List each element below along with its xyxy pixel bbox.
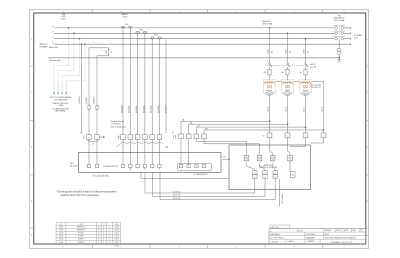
svg-text:(4)B1: (4)B1 [303,49,305,53]
relay box internal wires [247,164,255,171]
customer tap cables with arrows [68,27,70,29]
meter current input terminals [87,164,90,167]
wire output 2 [153,172,266,196]
wire 208Y/120 output [278,179,280,207]
node on grounding bar [338,57,340,59]
feeder taps to control transformers [269,27,271,29]
svg-text:Shipped Shorted: Shipped Shorted [111,120,124,123]
svg-text:1N5: 1N5 [205,128,208,130]
relay box input fuses [244,155,249,160]
svg-text:VOLTAGE INPUTS: VOLTAGE INPUTS [193,173,208,176]
svg-text:NO DIM: NO DIM [298,230,304,232]
svg-text:(1) 1A1 A+: (1) 1A1 A+ [120,105,123,113]
disconnect switches with linkage [269,63,271,65]
bus L1 (phase A) [55,27,335,29]
drawing inner border [34,13,366,244]
svg-text:CHKD BY: CHKD BY [336,230,342,232]
terminal strip TB3 (voltage) [173,135,175,139]
svg-text:10: 10 [274,173,276,175]
svg-text:PT Vn 208 (1,5): PT Vn 208 (1,5) [310,87,322,89]
svg-text:2.28.44: 2.28.44 [59,239,64,241]
svg-text:1.4: 1.4 [109,236,111,238]
svg-text:(1) 1A1 A+: (1) 1A1 A+ [128,105,131,113]
svg-text:1.28.44: 1.28.44 [115,233,120,235]
wire donut to ground bus [338,55,340,60]
svg-text:B+: B+ [262,136,264,138]
svg-text:Grounding Bar: Grounding Bar [49,60,61,62]
svg-text:4/B 3P 400A: 4/B 3P 400A [334,19,345,22]
svg-text:M: M [98,227,99,229]
neutral bar [55,43,351,45]
wire meter aux [141,172,229,178]
svg-text:(2) NN N+: (2) NN N+ [79,96,81,104]
TB1 jumper bracket [87,140,98,142]
wires TB4 to relay box [270,138,273,156]
CT secondary wires [122,28,124,135]
svg-text:2.28.44: 2.28.44 [59,230,64,232]
svg-text:/2-W: /2-W [354,38,358,40]
svg-text:(1) 1N1 N+: (1) 1N1 N+ [166,105,168,113]
svg-text:IB: IB [144,169,145,171]
svg-text:M: M [98,236,99,238]
svg-text:400/5: 400/5 [123,16,128,18]
svg-text:1.28.44+: 1.28.44+ [114,245,119,247]
power meter M1 outline [79,153,222,173]
wire sense B [89,48,109,135]
svg-text:(X) (X) (X)+: (X) (X) (X)+ [173,191,181,193]
svg-text:(2) NB B+: (2) NB B+ [94,96,96,103]
breaker linkage [338,26,340,41]
svg-text:CLASS: CLASS [58,104,65,107]
svg-text:m: m [196,169,197,171]
svg-text:AC-(700): AC-(700) [70,165,78,168]
svg-text:400/5: 400/5 [139,29,143,31]
svg-text:COUNT: COUNT [360,231,364,233]
svg-text:(1) 1A1 A+: (1) 1A1 A+ [142,105,145,113]
svg-text:(2) NA A+: (2) NA A+ [85,97,88,104]
svg-text:M: M [98,233,99,235]
neutral CT donut [337,48,341,52]
svg-text:REF: REF [115,224,118,226]
svg-text:M: M [98,230,99,232]
transformer primary windings T1 T2 T3 [265,82,275,83]
terminal blocks TB4 [267,133,272,138]
svg-text:(1) 1A1 A+: (1) 1A1 A+ [135,105,138,113]
wire PSU2 output [287,95,289,133]
wire PSU1 output [269,95,271,133]
svg-text:1.4: 1.4 [109,239,111,241]
svg-text:CT T(Notes): CT T(Notes) [111,123,121,126]
PT interconnect wire [276,80,281,82]
svg-text:(X) (X) (X)+: (X) (X) (X)+ [173,195,181,197]
drawing outer border [30,10,369,249]
svg-text:* Shorting links should be ke: * Shorting links should be kept in a dis… [56,191,117,194]
svg-text:208Y/120, 3-W: 208Y/120, 3-W [281,194,283,205]
wires TB1 to meter [88,139,90,164]
CT spare wire [165,40,167,134]
terminal strip TB2 (CT shorting block) [118,135,120,138]
svg-text:(X) (X) (X)+: (X) (X) (X)+ [173,198,181,200]
meter voltage input terminals [177,163,211,170]
relay box outline [229,145,311,190]
svg-text:a: a [137,137,138,139]
wires TB3 to meter voltage inputs [180,140,182,165]
svg-text:1B5: 1B5 [190,123,193,125]
current transformers CT1 CT2 CT3 [121,26,125,28]
svg-text:M: M [98,242,99,244]
svg-text:2.28.44: 2.28.44 [59,236,64,238]
svg-text:a: a [204,137,205,139]
transformer secondaries 115V [268,85,272,88]
svg-text:1.28.44: 1.28.44 [115,227,120,229]
fuse F4 on sense B [88,105,90,109]
ground symbol [337,59,341,61]
drawout breaker 52 poles [335,27,338,30]
wires TB3 to control power feeders [181,121,270,134]
svg-text:(4)B1: (4)B1 [267,49,269,53]
voltage dimension arrow 480V [108,48,110,56]
svg-text:Neutral Bar: Neutral Bar [49,46,58,49]
svg-text:1.4: 1.4 [109,242,111,244]
wire sense C [97,56,109,135]
svg-text:m: m [204,169,205,171]
wire breaker to ground [338,40,340,47]
svg-text:CURRENT INPUTS: CURRENT INPUTS [103,166,119,168]
bus L2 (phase B) [55,32,335,34]
wire output 3 [160,172,275,199]
svg-text:1.28.44: 1.28.44 [115,239,120,241]
wire PT output [323,81,325,133]
node tap on neutral bar [81,43,83,45]
svg-text:SCHEMATIC, 45' (LOT) 13: SCHEMATIC, 45' (LOT) 13 [331,241,352,244]
svg-text:400/5: 400/5 [125,24,129,26]
svg-text:(1) 1A1 A+: (1) 1A1 A+ [150,105,153,113]
svg-text:M: M [98,239,99,241]
terminal block TB1 [83,135,85,139]
wires TB2 to meter [122,139,124,164]
svg-text:TO (LOAD) KWH: TO (LOAD) KWH [54,99,68,102]
svg-text:2.28.44: 2.28.44 [59,233,64,235]
wire PSU3 output [305,95,307,133]
neutral end tick [350,43,352,45]
wire output 1 [145,172,255,193]
bus L3 (phase C) [55,38,335,40]
svg-text:2.28.44: 2.28.44 [59,242,64,244]
svg-text:IC: IC [159,169,160,171]
relay box output terminals [253,171,257,175]
svg-text:1C5: 1C5 [197,126,200,128]
svg-text:LOGO PREF &: LOGO PREF & [306,234,316,236]
border zone tick marks [92,10,94,14]
bill of materials table [55,222,57,243]
grounding bar [48,57,339,59]
shorting links (removable) [116,142,163,147]
svg-text:(with shorting links): (with shorting links) [111,125,127,128]
title block [271,225,290,229]
svg-text:position when the CT is connec: position when the CT is connected. [61,194,100,197]
wire sense A [80,44,82,133]
svg-text:2.28.44: 2.28.44 [59,227,64,229]
svg-text:1.28.44: 1.28.44 [115,236,120,238]
svg-text:m: m [181,169,182,171]
control transformer enclosures (dashed) [263,80,275,93]
svg-text:3 PHASE: 3 PHASE [40,45,49,48]
svg-text:1.4: 1.4 [109,230,111,232]
svg-text:(1) 1A1 A+: (1) 1A1 A+ [157,105,160,113]
svg-text:ARV/12V(A): ARV/12V(A) [263,23,273,26]
svg-text:1.28.44: 1.28.44 [115,242,120,244]
svg-text:1.4: 1.4 [109,233,111,235]
svg-text:10: 10 [274,177,276,179]
svg-text:m: m [188,169,189,171]
fuse F5 on sense C [96,105,98,109]
svg-text:400/5: 400/5 [154,35,158,37]
wires TB3 to relay box [196,139,246,156]
svg-text:1.4: 1.4 [109,227,111,229]
fuses F1 F2 F3 [268,69,271,75]
svg-text:SOL. STE OFFICES: SOL. STE OFFICES [270,238,284,240]
svg-text:a: a [130,137,131,139]
svg-text:AND PANEL: AND PANEL [55,110,65,113]
svg-text:4GB 3P: 4GB 3P [310,64,316,66]
svg-text:1.28.44: 1.28.44 [115,230,120,232]
svg-text:(4)B1: (4)B1 [285,49,287,53]
svg-text:LP 14 AC) AV GB) x: LP 14 AC) AV GB) x [92,175,110,178]
